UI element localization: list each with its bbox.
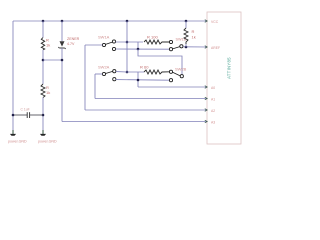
node x127 row1 [126, 41, 129, 44]
svg-text:A2: A2 [211, 109, 215, 113]
wire zener bottom down [61, 48, 63, 122]
svg-text:ATTINY85: ATTINY85 [227, 57, 232, 79]
wire SW2A common drop [94, 74, 96, 99]
switch SW2A [102, 70, 116, 81]
wire to IC pin A0 [138, 86, 207, 88]
wire R5 top lead [185, 21, 187, 28]
svg-text:C 1uF: C 1uF [21, 108, 30, 112]
resistor R2 [41, 84, 45, 98]
wire row2 jog vertical [137, 72, 139, 87]
node junction top rail at x127 [126, 20, 129, 23]
svg-text:1k: 1k [46, 43, 50, 48]
node zener divider join [61, 59, 64, 62]
svg-text:R 100: R 100 [147, 35, 158, 40]
wire to IC pin A3 [62, 121, 207, 123]
pin A2 arrow [205, 109, 207, 112]
wire to IC pin A2 [85, 109, 207, 111]
wire R1 to mid node [42, 50, 44, 84]
node row2 jog [137, 79, 140, 82]
wire left rail down [12, 21, 14, 130]
svg-text:ZENER: ZENER [67, 37, 80, 41]
svg-text:AREF: AREF [211, 46, 220, 50]
resistor R5 [184, 28, 188, 44]
node row1 jog [137, 48, 140, 51]
ground left [10, 130, 16, 136]
pin RST arrow [205, 46, 207, 49]
wire SW1B to IC pin RST [183, 46, 207, 48]
wire row1 to SW2B common [138, 49, 182, 74]
wire cap left [13, 114, 27, 116]
svg-text:A3: A3 [211, 121, 215, 125]
wire R5 bottom lead [185, 44, 187, 47]
op-amp U1 body [207, 12, 241, 144]
wire row1 jog stub [137, 42, 139, 49]
svg-text:SW2A: SW2A [98, 65, 110, 70]
node junction top rail at R1 [42, 20, 45, 23]
wire x127 rail drop [126, 21, 128, 72]
pin A3 arrow [205, 120, 207, 123]
svg-text:VCC: VCC [211, 20, 219, 24]
pin A1 arrow [205, 97, 207, 100]
wire zener top lead [61, 21, 63, 41]
wire SW1A top throw [116, 41, 143, 43]
node cap left junction [12, 114, 15, 117]
wire SW2A bottom throw [116, 79, 170, 82]
wire R2 bottom to ground [42, 98, 44, 131]
svg-text:1k: 1k [46, 90, 50, 95]
svg-text:1k: 1k [192, 35, 196, 40]
node divider mid [42, 59, 45, 62]
switch SW1B [169, 40, 183, 50]
resistor R3 [144, 40, 169, 44]
node junction top rail at R5 [185, 20, 188, 23]
svg-text:4.7V: 4.7V [67, 42, 75, 46]
wire top VCC rail [13, 20, 207, 22]
svg-text:R: R [192, 29, 195, 34]
capacitor C1 [27, 112, 29, 118]
resistor R1 [41, 38, 44, 50]
switch SW2B [169, 70, 183, 82]
wire R1 top lead [42, 21, 44, 38]
ground right [40, 130, 46, 136]
wire SW2A top throw [116, 71, 144, 73]
node cap right junction [42, 114, 45, 117]
node R5 bottom [185, 46, 188, 49]
wire SW1A common left [85, 44, 102, 46]
wire SW1A common drop [84, 45, 86, 110]
svg-text:power.GND: power.GND [8, 140, 27, 144]
svg-text:power.GND: power.GND [38, 140, 57, 144]
svg-text:A1: A1 [211, 98, 215, 102]
wire SW2A common left [95, 73, 102, 75]
svg-text:A0: A0 [211, 86, 215, 90]
wire to IC pin A1 [95, 98, 207, 100]
pin VCC arrow [205, 20, 207, 23]
svg-text:SW2B: SW2B [175, 67, 187, 72]
svg-text:R 60: R 60 [140, 65, 149, 70]
wire cap right [30, 114, 43, 116]
node junction top rail at zener [61, 20, 64, 23]
wire divider mid to zener [43, 59, 62, 61]
switch SW1A [102, 40, 115, 51]
node x127 row2 [126, 71, 129, 74]
wire SW1A bottom throw [116, 48, 170, 50]
svg-text:SW1A: SW1A [98, 35, 110, 40]
diode D1 zener [58, 41, 65, 49]
pin A0 arrow [205, 86, 207, 89]
resistor R4 [144, 70, 169, 74]
